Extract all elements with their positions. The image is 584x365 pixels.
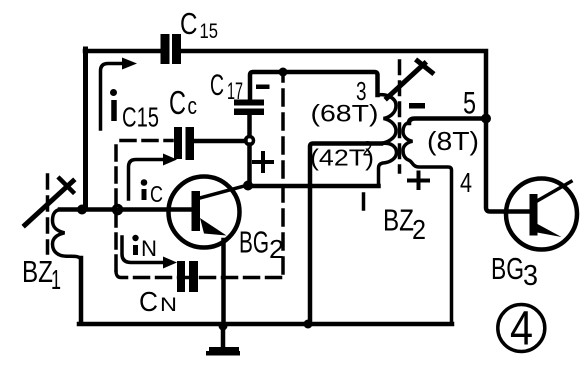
svg-text:C: C	[139, 286, 158, 317]
svg-text:(8T): (8T)	[427, 128, 479, 156]
svg-text:C: C	[150, 181, 163, 207]
svg-text:2: 2	[269, 234, 284, 264]
svg-text:BG: BG	[239, 225, 269, 260]
svg-text:C: C	[169, 84, 186, 121]
svg-text:17: 17	[227, 78, 243, 105]
svg-text:c: c	[188, 93, 198, 120]
svg-text:C: C	[180, 6, 198, 41]
svg-text:BZ: BZ	[383, 203, 414, 238]
svg-text:3: 3	[356, 76, 367, 106]
svg-text:N: N	[141, 236, 157, 261]
svg-text:4: 4	[460, 167, 472, 198]
svg-text:BG: BG	[491, 251, 524, 286]
svg-text:(68T): (68T)	[311, 101, 379, 128]
svg-text:2: 2	[412, 214, 426, 245]
svg-text:4: 4	[510, 303, 533, 356]
svg-text:C15: C15	[122, 102, 159, 133]
svg-text:1: 1	[51, 264, 61, 295]
svg-text:15: 15	[200, 20, 219, 43]
svg-text:2: 2	[363, 138, 373, 161]
svg-text:BZ: BZ	[22, 254, 53, 289]
svg-text:N: N	[160, 295, 177, 316]
svg-text:3: 3	[523, 260, 538, 292]
svg-text:C: C	[210, 69, 224, 102]
svg-text:5: 5	[463, 85, 476, 121]
